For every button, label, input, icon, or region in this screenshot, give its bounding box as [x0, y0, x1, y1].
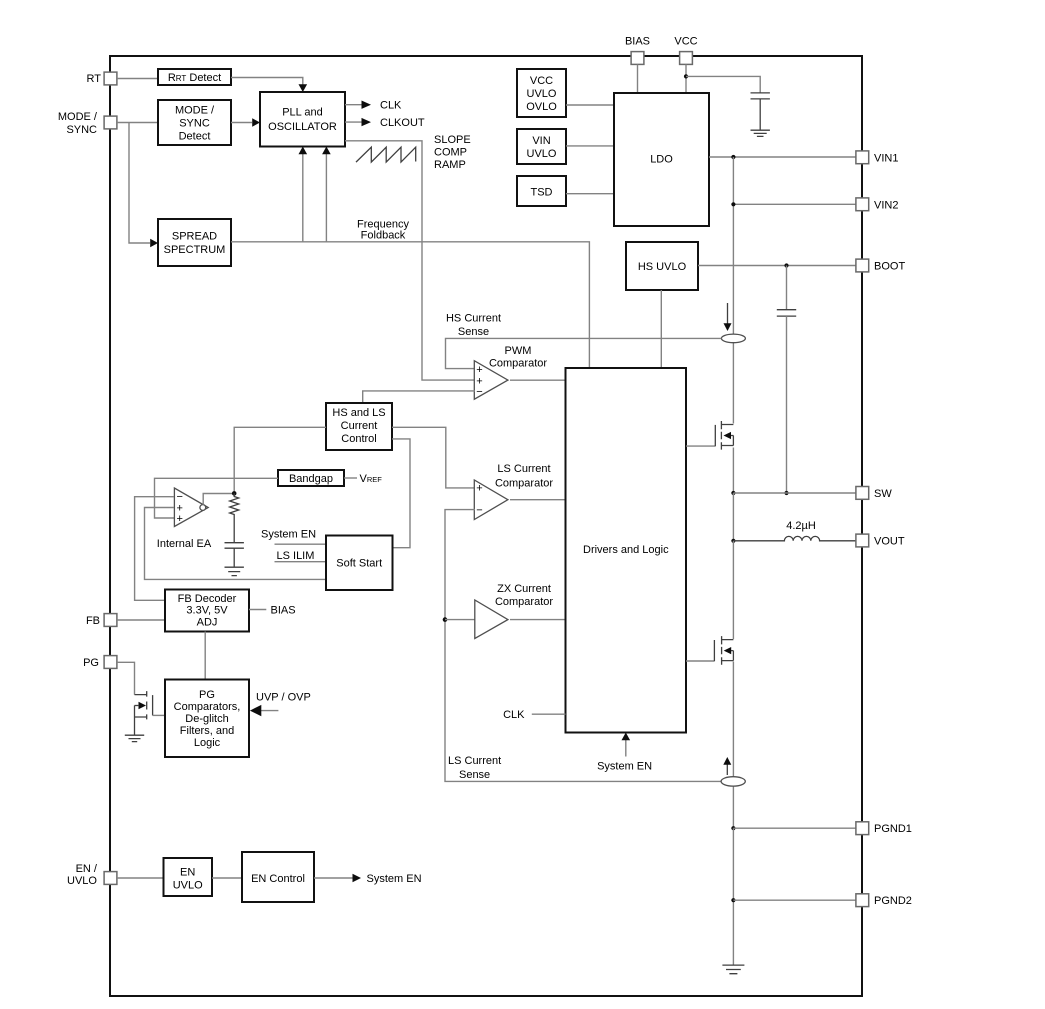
svg-text:Foldback: Foldback: [361, 230, 406, 242]
pin VIN1: [856, 151, 899, 164]
Drivers and Logic block: [566, 368, 687, 733]
EN UVLO block: [164, 858, 213, 896]
svg-text:HS UVLO: HS UVLO: [638, 261, 687, 273]
svg-text:+: +: [476, 483, 482, 495]
svg-text:−: −: [476, 386, 482, 398]
svg-text:VCC: VCC: [530, 75, 553, 87]
LDO block: [614, 93, 709, 226]
svg-text:Control: Control: [341, 433, 376, 445]
wire EA minus to FB decoder: [135, 497, 174, 601]
wire LDO output to VIN1: [709, 156, 857, 158]
node VIN2 junction: [731, 202, 735, 206]
svg-text:BOOT: BOOT: [874, 261, 905, 273]
arrow LS current direction: [726, 765, 728, 776]
ground compensation: [225, 567, 244, 575]
pin SW: [856, 487, 892, 500]
svg-text:Filters, and: Filters, and: [180, 725, 234, 737]
svg-text:EN Control: EN Control: [251, 873, 305, 885]
wire soft start to HS/LS control: [392, 439, 410, 548]
svg-text:SPECTRUM: SPECTRUM: [164, 244, 226, 256]
wire HS UVLO to drivers: [660, 290, 662, 368]
svg-text:PG: PG: [83, 657, 99, 669]
wire bandgap VREF output: [344, 477, 357, 479]
svg-text:UVLO: UVLO: [527, 148, 557, 160]
svg-text:System EN: System EN: [597, 761, 652, 773]
transistor Q2 low-side FET: [714, 636, 733, 665]
RRT Detect block: [158, 69, 231, 85]
arrowhead into PLL left: [252, 118, 260, 126]
op-amp ZX current comparator: [475, 600, 508, 639]
svg-text:4.2µH: 4.2µH: [786, 520, 816, 532]
svg-text:BIAS: BIAS: [625, 36, 650, 48]
svg-text:SYNC: SYNC: [179, 118, 210, 130]
wire VCC to bypass capacitor: [686, 76, 760, 92]
svg-text:UVLO: UVLO: [527, 88, 557, 100]
svg-text:SYNC: SYNC: [66, 124, 97, 136]
arrowhead into SPREAD SPECTRUM: [150, 239, 158, 247]
transistor Q1 high-side FET: [715, 421, 733, 450]
svg-text:PG: PG: [199, 689, 215, 701]
wire RT pin to RRT Detect: [117, 78, 158, 80]
wire FB pin to decoder: [117, 619, 165, 621]
wire PGND1: [733, 827, 856, 829]
node VOUT junction: [731, 539, 735, 543]
svg-text:LS Current: LS Current: [448, 755, 501, 767]
ground VCC bypass: [751, 130, 770, 136]
transistor Q3 PG open-drain FET: [135, 691, 153, 735]
svg-text:System EN: System EN: [367, 873, 422, 885]
wire BIAS pin to LDO: [637, 65, 639, 94]
wire HS/LS control to EA output node: [234, 427, 326, 493]
svg-text:CLK: CLK: [380, 100, 402, 112]
svg-text:Internal EA: Internal EA: [157, 538, 212, 550]
svg-text:Bandgap: Bandgap: [289, 473, 333, 485]
svg-text:EN: EN: [180, 867, 195, 879]
node VIN1 junction: [731, 155, 735, 159]
svg-text:PGND1: PGND1: [874, 823, 912, 835]
Soft Start block: [326, 536, 393, 591]
svg-text:RAMP: RAMP: [434, 159, 466, 171]
svg-text:HS and LS: HS and LS: [332, 407, 385, 419]
pin PGND2: [856, 894, 912, 907]
SPREAD SPECTRUM block: [158, 219, 231, 266]
svg-text:VIN: VIN: [532, 135, 550, 147]
wire HS current sense to PWM comparator: [446, 338, 722, 368]
svg-text:CLKOUT: CLKOUT: [380, 117, 425, 129]
wire ZX comparator input: [445, 619, 476, 621]
svg-text:Comparator: Comparator: [489, 358, 547, 370]
wire EN UVLO to EN Control: [212, 877, 242, 879]
svg-text:Logic: Logic: [194, 737, 221, 749]
wire SW node to pin: [733, 492, 856, 494]
svg-text:Comparator: Comparator: [495, 596, 553, 608]
MODE / SYNC Detect block: [158, 100, 231, 145]
capacitor bootstrap: [777, 310, 796, 316]
pin PGND1: [856, 822, 912, 835]
wire HS FET source to SW node: [732, 448, 734, 494]
pin FB: [86, 614, 117, 627]
wire EA output to compensation node: [203, 494, 234, 505]
label PWM Comparator: [489, 345, 547, 370]
FB Decoder block: [165, 590, 249, 632]
pin VOUT: [856, 534, 905, 547]
op-amp PWM comparator: [474, 361, 508, 400]
VIN UVLO block: [517, 129, 566, 164]
pin PG: [83, 656, 117, 669]
wire CLK into drivers: [532, 713, 566, 715]
current sense element LS (ellipse): [721, 777, 745, 786]
svg-text:UVLO: UVLO: [67, 875, 97, 887]
svg-text:BIAS: BIAS: [271, 605, 296, 617]
svg-text:OVLO: OVLO: [526, 101, 557, 113]
wire LS FET source down through sense: [732, 662, 734, 829]
wire riser to PLL bottom 1: [302, 154, 304, 242]
node EA output: [232, 491, 237, 496]
svg-text:COMP: COMP: [434, 147, 467, 159]
arrowhead up into PLL bottom 2: [322, 147, 331, 155]
wire BOOT to bootstrap capacitor: [786, 266, 788, 310]
wire FB decoder BIAS output: [249, 609, 266, 611]
wire EA plus to soft start: [145, 508, 327, 580]
sawtooth ramp waveform: [356, 147, 416, 162]
wire VOUT node down to LS FET drain: [732, 541, 734, 639]
svg-text:Drivers and Logic: Drivers and Logic: [583, 544, 669, 556]
capacitor VCC bypass: [751, 93, 770, 130]
svg-text:VIN2: VIN2: [874, 199, 898, 211]
op-amp U-EA internal error amplifier: [174, 488, 208, 527]
svg-text:VREF: VREF: [360, 473, 383, 485]
Bandgap block: [278, 470, 344, 486]
pin VIN2: [856, 198, 899, 211]
node PGND2 junction: [731, 898, 735, 902]
wire SW to VOUT node: [732, 493, 734, 541]
wire CLKOUT output: [345, 121, 362, 123]
svg-text:FB: FB: [86, 615, 100, 627]
svg-text:SW: SW: [874, 488, 892, 500]
pin VCC: [674, 36, 697, 65]
svg-text:Frequency: Frequency: [357, 218, 409, 230]
svg-text:UVP / OVP: UVP / OVP: [256, 692, 311, 704]
wire HS/LS control to PWM comparator minus: [363, 391, 475, 403]
wire EN Control system EN output: [314, 877, 353, 879]
svg-text:LS ILIM: LS ILIM: [277, 550, 315, 562]
wire PWM comparator output: [510, 379, 566, 381]
wire riser to PLL bottom 2: [325, 154, 327, 242]
svg-text:SLOPE: SLOPE: [434, 134, 471, 146]
wire RRT Detect to PLL top: [231, 78, 303, 86]
pin MODE/SYNC: [58, 111, 117, 136]
wire LS comparator output: [510, 499, 566, 501]
resistor compensation: [230, 493, 239, 542]
svg-text:RT: RT: [87, 73, 102, 85]
node PGND1 junction: [731, 826, 735, 830]
label ZX Current Comparator: [495, 583, 553, 608]
wire EN pin to EN UVLO: [117, 877, 164, 879]
svg-text:LS Current: LS Current: [497, 463, 550, 475]
TSD block: [517, 176, 566, 206]
svg-text:PWM: PWM: [505, 345, 532, 357]
svg-text:PGND2: PGND2: [874, 895, 912, 907]
label LS Current Comparator: [495, 463, 553, 489]
svg-text:LDO: LDO: [650, 154, 673, 166]
pin RT: [87, 72, 117, 85]
op-amp LS current comparator: [474, 480, 508, 520]
PLL and OSCILLATOR block U-PLL: [260, 92, 345, 147]
wire FB decoder to PG comparators: [204, 632, 206, 680]
ground PG FET source: [125, 735, 144, 741]
svg-text:VIN1: VIN1: [874, 152, 898, 164]
current sense element HS (ellipse): [721, 334, 745, 343]
node SW junction 1: [731, 491, 735, 495]
chip outline border: [110, 56, 862, 996]
arrowhead UVP/OVP: [250, 705, 261, 716]
label HS Current Sense: [446, 313, 501, 339]
wire ZX comparator output: [510, 619, 566, 621]
capacitor compensation: [225, 543, 244, 567]
wire slope comp ramp from PLL to PWM comparator: [345, 141, 475, 380]
wire CLK output: [345, 104, 362, 106]
wire detect to PLL: [231, 122, 252, 124]
arrow HS current direction: [727, 303, 729, 324]
svg-text:PLL and: PLL and: [282, 107, 323, 119]
svg-text:De-glitch: De-glitch: [185, 713, 228, 725]
wire PG pin to FET drain: [117, 662, 135, 694]
wire PGND2: [733, 899, 856, 901]
wire VCC UVLO to LDO: [566, 104, 614, 106]
svg-text:CLK: CLK: [503, 709, 525, 721]
wire LS gate from drivers: [686, 660, 714, 662]
VCC UVLO OVLO block: [517, 69, 566, 117]
svg-text:VCC: VCC: [674, 36, 697, 48]
svg-text:ZX Current: ZX Current: [497, 583, 551, 595]
svg-text:SPREAD: SPREAD: [172, 231, 217, 243]
svg-text:Current: Current: [341, 420, 378, 432]
label SLOPE COMP RAMP: [434, 134, 471, 171]
node SW junction 2 boot cap: [784, 491, 788, 495]
wire HS gate from drivers: [686, 445, 716, 447]
svg-text:OSCILLATOR: OSCILLATOR: [268, 121, 337, 133]
svg-text:Detect: Detect: [179, 131, 211, 143]
pin EN/UVLO: [67, 863, 117, 887]
inductor L1: [733, 536, 856, 540]
svg-text:ADJ: ADJ: [197, 617, 218, 629]
svg-text:VOUT: VOUT: [874, 536, 905, 548]
svg-text:UVLO: UVLO: [173, 880, 203, 892]
wire VIN rail down: [732, 157, 734, 424]
wire UVP/OVP arrow into PG comparators: [260, 710, 278, 712]
EN Control block: [242, 852, 314, 902]
wire VIN UVLO to LDO: [566, 145, 614, 147]
label LS Current Sense: [448, 755, 501, 781]
arrowhead CLKOUT: [362, 118, 372, 126]
node BOOT cap junction: [784, 263, 788, 267]
HS UVLO block: [626, 242, 698, 290]
pin BOOT: [856, 259, 906, 272]
PG Comparators block: [165, 680, 249, 758]
svg-text:EN /: EN /: [76, 863, 98, 875]
wire HS/LS control to LS comparator plus: [392, 427, 475, 488]
wire bandgap to EA plus input: [155, 478, 279, 518]
svg-text:TSD: TSD: [531, 187, 553, 199]
wire system EN into soft start: [275, 543, 327, 545]
wire system EN arrow into drivers: [625, 740, 627, 757]
ground power ground: [722, 965, 744, 974]
wire PG FET gate to PG comparators: [153, 714, 165, 716]
svg-text:Comparators,: Comparators,: [174, 701, 241, 713]
pin BIAS: [625, 36, 650, 65]
svg-text:MODE /: MODE /: [175, 105, 215, 117]
svg-text:FB Decoder: FB Decoder: [178, 593, 237, 605]
wire spread spectrum output / frequency foldback to drivers: [231, 242, 589, 368]
svg-text:−: −: [476, 504, 482, 516]
svg-text:Soft Start: Soft Start: [336, 558, 382, 570]
wire VCC pin to LDO: [685, 65, 687, 94]
arrowhead CLK: [362, 101, 372, 109]
svg-text:−: −: [177, 491, 183, 503]
wire LS current sense net: [445, 510, 721, 782]
svg-text:RRT Detect: RRT Detect: [168, 72, 221, 84]
wire TSD to LDO: [566, 193, 614, 195]
wire bootstrap cap to SW: [786, 316, 788, 493]
svg-text:3.3V, 5V: 3.3V, 5V: [186, 605, 228, 617]
svg-text:Sense: Sense: [459, 769, 490, 781]
wire VIN2: [733, 203, 856, 205]
svg-text:HS Current: HS Current: [446, 313, 501, 325]
wire LS ILIM into soft start: [275, 561, 327, 563]
HS and LS Current Control block: [326, 403, 392, 450]
label Frequency Foldback: [357, 218, 409, 241]
wire MODE/SYNC pin to detect block: [117, 122, 158, 124]
svg-text:System EN: System EN: [261, 529, 316, 541]
arrowhead system EN up: [622, 733, 631, 741]
node VCC branch: [684, 74, 688, 78]
svg-text:Comparator: Comparator: [495, 477, 553, 489]
wire PGND rail: [732, 828, 734, 965]
arrowhead system EN output: [353, 874, 362, 882]
wire HS UVLO to BOOT: [698, 265, 857, 267]
svg-text:MODE /: MODE /: [58, 111, 98, 123]
arrowhead up into PLL bottom 1: [299, 147, 308, 155]
svg-text:+: +: [177, 513, 183, 525]
wire MODE/SYNC pin branch to spread spectrum: [129, 123, 150, 244]
node ZX junction: [443, 617, 448, 622]
svg-text:Sense: Sense: [458, 326, 489, 338]
arrowhead into PLL top: [299, 84, 308, 92]
